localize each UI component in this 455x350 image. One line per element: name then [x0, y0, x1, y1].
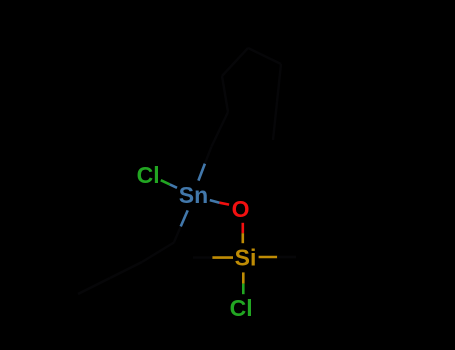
svg-text:Cl: Cl [137, 162, 160, 188]
wire Si-methyl left bond, Si half (gold) [212, 256, 233, 259]
svg-text:Cl: Cl [230, 295, 253, 321]
wire O-Si bond, Si half (gold) [242, 233, 245, 243]
wire Sn-O bond, O half (red) [220, 203, 230, 205]
wire Sn-C bond down-left, carbon half (near-black) [174, 227, 181, 243]
wire alkyl chain up C4-C5 (near-black) [248, 48, 281, 64]
wire Si-Cl bond, Si half (gold) [242, 272, 245, 283]
wire Si-methyl left, carbon half (near-black) [193, 256, 212, 258]
wire Cl-Sn bond, Cl half (green) [161, 180, 170, 184]
svg-text:Si: Si [235, 245, 257, 271]
wire alkyl chain up C5-C6 (near-black) [277, 64, 281, 102]
svg-text:O: O [232, 196, 250, 222]
wire alkyl chain up C3-C4 (near-black) [222, 48, 248, 76]
wire O-Si bond, O half (red) [242, 223, 245, 233]
wire Si-methyl right, carbon half (near-black) [277, 256, 296, 258]
wire alkyl chain down C2-C3 (near-black) [110, 262, 142, 278]
wire alkyl chain up C6-C7 (near-black) [273, 102, 277, 140]
wire alkyl chain up C2-C3 (near-black) [222, 76, 228, 112]
wire Si-methyl right bond, Si half (gold) [259, 256, 278, 259]
wire Sn-C1 bond, carbon half (near-black) [205, 147, 212, 164]
wire Cl-Sn bond, Sn half (blue) [170, 184, 177, 187]
svg-text:Sn: Sn [179, 182, 208, 208]
wire Si-Cl bond, Cl half (green) [242, 284, 245, 295]
wire Sn-C1 bond (alkyl up), Sn half (blue) [198, 164, 205, 181]
wire Sn-C bond (alkyl down-left), Sn half (blue) [181, 210, 188, 226]
wire alkyl chain up C1-C2 (near-black) [212, 112, 229, 147]
wire alkyl chain down C3-C4 (near-black) [78, 278, 110, 294]
wire Sn-O bond, Sn half (blue) [210, 200, 220, 203]
wire alkyl chain down C1-C2 (near-black) [142, 243, 174, 263]
